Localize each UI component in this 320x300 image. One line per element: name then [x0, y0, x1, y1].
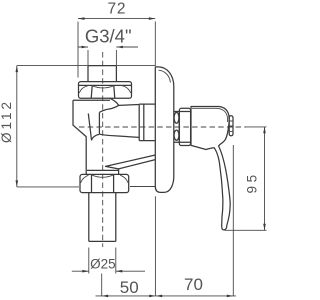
handle end cap: [229, 116, 233, 136]
handle body and lever: [191, 107, 230, 230]
svg-text:Ø25: Ø25: [90, 257, 116, 272]
extension line O25 left: [88, 248, 90, 274]
extension line 70 right: [232, 145, 234, 296]
centerline vertical axis: [102, 52, 104, 247]
bracket blade behind plate: [106, 155, 156, 169]
boss oval lower: [174, 130, 179, 140]
extension line 95 bottom: [225, 229, 267, 231]
cartridge collar: [179, 108, 190, 145]
handle inner top contour: [192, 108, 228, 122]
wall plate (escutcheon): [155, 67, 174, 192]
body inner web slant: [88, 114, 99, 141]
extension line O112 top: [17, 65, 156, 67]
valve body left profile: [73, 100, 86, 174]
top inlet pipe G3/4: [88, 66, 116, 82]
svg-text:70: 70: [184, 275, 203, 294]
svg-text:50: 50: [120, 278, 139, 297]
dim line O112 vertical: [16, 66, 18, 187]
dim line G3/4: [78, 46, 139, 48]
extension line 95 top: [246, 126, 267, 128]
extension line 72 left: [77, 22, 79, 78]
valve body top face: [73, 99, 110, 101]
plate inner corner arc: [159, 70, 171, 82]
body neck curve to cone: [110, 98, 119, 105]
cartridge cone bottom edge: [99, 134, 139, 137]
body base shelf: [87, 169, 119, 171]
extension line G3/4 right: [115, 50, 117, 65]
extension line G3/4 left: [87, 50, 89, 65]
centerline horizontal axis: [79, 126, 246, 128]
blade support vertical: [118, 169, 120, 174]
svg-text:Ø112: Ø112: [0, 99, 14, 143]
dim line 50 70: [96, 295, 237, 297]
extension line O25 right: [115, 248, 117, 274]
svg-text:G3/4": G3/4": [85, 25, 132, 46]
boss oval upper: [174, 112, 179, 123]
extension line mid plate: [154, 196, 156, 296]
cartridge cone mouth: [98, 112, 100, 134]
outlet pipe O25: [89, 193, 116, 242]
cartridge boss strip: [174, 112, 191, 143]
mounting flange at plate: [139, 104, 155, 141]
union nut bottom: [80, 174, 129, 192]
extension line O112 bottom: [17, 186, 156, 188]
svg-text:72: 72: [107, 0, 126, 17]
dim line O25: [72, 270, 145, 272]
extension line 72 right: [154, 22, 156, 67]
svg-text:95: 95: [245, 171, 260, 193]
cartridge cone top edge: [99, 105, 139, 113]
dim line 95 vertical: [264, 127, 266, 231]
union nut top: [79, 82, 132, 99]
extension line 50 left: [101, 274, 103, 296]
dim line 72: [78, 18, 155, 20]
